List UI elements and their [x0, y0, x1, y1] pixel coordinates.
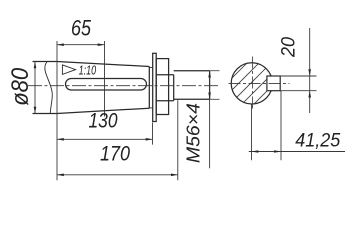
- svg-text:M56×4: M56×4: [184, 103, 204, 163]
- svg-text:ø80: ø80: [7, 67, 34, 106]
- svg-text:1:10: 1:10: [79, 63, 97, 78]
- svg-text:170: 170: [100, 143, 130, 166]
- svg-text:41,25: 41,25: [295, 130, 340, 151]
- svg-text:130: 130: [89, 110, 118, 133]
- svg-text:20: 20: [279, 37, 300, 58]
- svg-text:65: 65: [71, 15, 92, 40]
